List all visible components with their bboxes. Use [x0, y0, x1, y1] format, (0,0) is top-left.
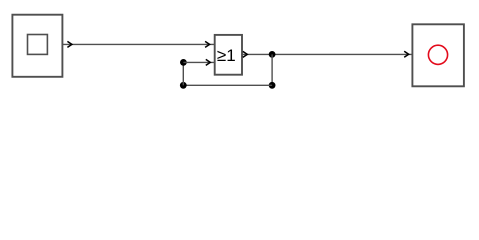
- OR gate U1: [215, 35, 242, 75]
- arrowhead at lamp H1 input: [404, 51, 409, 57]
- junction node at OR gate input 2: [180, 59, 187, 66]
- lamp symbol red circle: [428, 45, 447, 64]
- feedback wire vertical right: [271, 54, 273, 85]
- arrowhead after S1: [67, 41, 72, 47]
- lamp block H1: [412, 24, 464, 86]
- feedback wire vertical left: [182, 62, 184, 85]
- feedback wire bottom: [183, 84, 272, 86]
- arrowhead at OR gate input 2: [206, 59, 211, 65]
- input block S1: [12, 15, 62, 77]
- svg-text:≥1: ≥1: [217, 46, 236, 65]
- arrowhead at OR gate input 1: [205, 41, 210, 47]
- input symbol square: [28, 35, 48, 55]
- junction node bottom left: [180, 82, 187, 89]
- wire S1 output to OR gate input 1: [62, 43, 214, 45]
- wire U1 output to lamp H1: [242, 53, 412, 55]
- junction node bottom right: [269, 82, 276, 89]
- junction node at U1 output: [269, 51, 276, 58]
- wire to OR gate input 2: [183, 61, 214, 63]
- arrowhead after U1 output: [243, 51, 248, 57]
